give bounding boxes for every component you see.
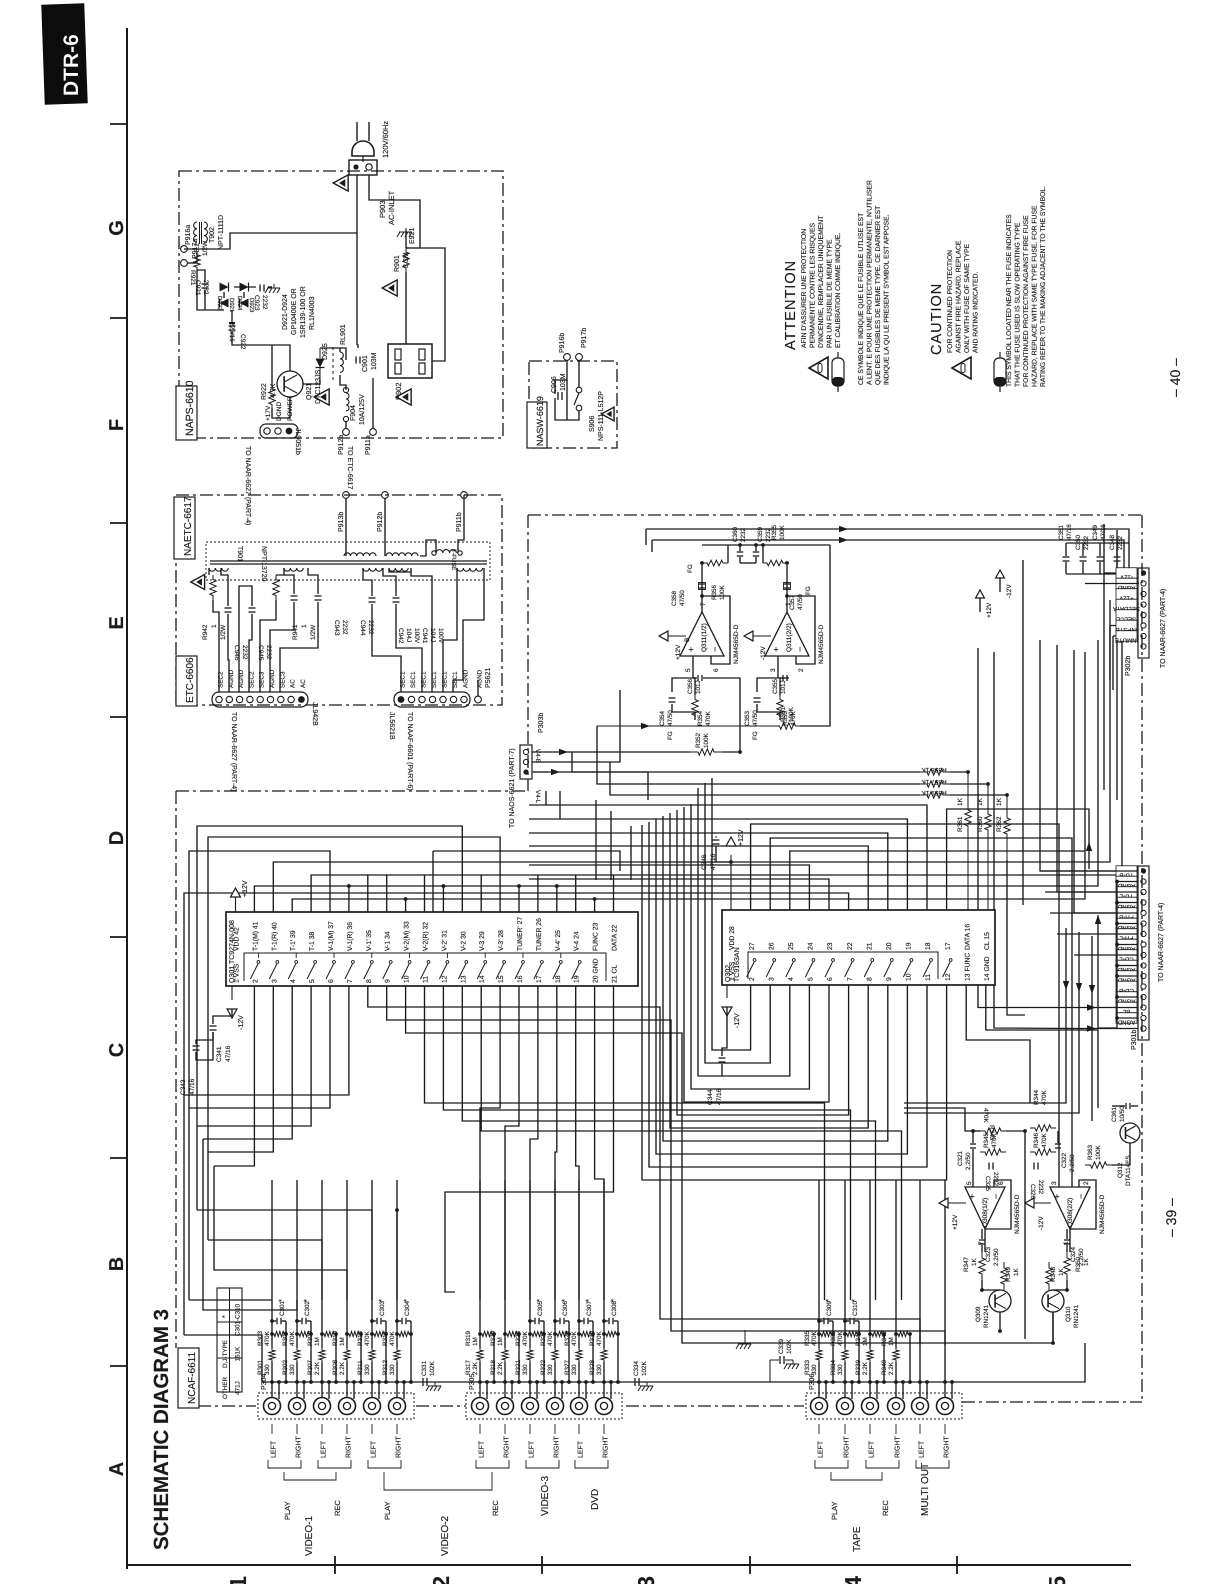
Q301 switch 12 [439,964,447,979]
wire [271,1362,273,1397]
svg-text:2: 2 [252,979,259,983]
capacitor C945 2232 [249,607,256,609]
svg-text:470K: 470K [705,710,712,726]
wire [458,495,464,553]
svg-text:D: D [106,831,128,845]
wire [188,262,198,264]
svg-text:3.3M: 3.3M [403,252,410,268]
wire [617,1334,619,1382]
transistor Q310 RN1241 [1042,1290,1064,1312]
wire mesh [197,826,462,1210]
JL5621B pin 4 SEC1 [429,696,435,702]
wire [909,1334,911,1382]
diode D925 [316,359,325,368]
main block border (bottom m1) [626,1405,804,1407]
wire [308,568,318,594]
svg-text:470K: 470K [837,1330,844,1346]
wire [346,1334,348,1348]
wire [919,1348,921,1362]
JL5621B pin 2 SEC1 [408,696,414,702]
T901 thermal fuse [436,550,456,553]
svg-text:330: 330 [289,1364,296,1375]
RCA jack 7 [472,1398,489,1415]
svg-text:T901: T901 [236,546,243,562]
JL942B pin 9 AC [298,696,305,703]
wire (jack shield) [825,1382,827,1399]
wire [272,397,290,418]
RCA jack 10 [547,1398,564,1415]
T901 secondary winding 2 [284,568,303,571]
wire [372,378,374,429]
svg-text:1K: 1K [996,797,1003,806]
svg-text:2232: 2232 [341,620,348,635]
svg-text:RL901: RL901 [340,324,347,345]
wire [883,1334,885,1382]
svg-text:8: 8 [866,977,873,981]
wire [346,1362,348,1397]
capacitor C350 2232 [1080,556,1087,558]
resistor R302 330 [294,1348,300,1362]
svg-text:10A/125V: 10A/125V [358,394,366,425]
page: bottom tick 3 [749,1556,751,1574]
svg-text:C943: C943 [333,620,340,636]
svg-text:P5621: P5621 [485,668,492,688]
svg-text:P903: P903 [378,200,387,218]
svg-text:D921-D924: D921-D924 [282,294,289,330]
resistor R342 1M [896,1331,910,1336]
wire [410,1334,412,1382]
svg-text:TUNER' 27: TUNER' 27 [517,917,524,951]
svg-text:R319: R319 [465,1330,472,1346]
wire [371,1362,373,1397]
svg-text:19: 19 [906,942,913,950]
warning triangle (ETC) [191,575,205,590]
resistor R356 100K [702,560,728,566]
svg-text:3: 3 [633,1576,659,1584]
wire [703,678,740,752]
svg-text:11: 11 [925,974,932,981]
RCA jack 1 [264,1398,281,1415]
Q302 switch 5 [805,962,813,977]
svg-text:100V: 100V [413,628,420,644]
wire [895,1362,897,1397]
svg-text:RIGHT: RIGHT [944,1436,951,1459]
svg-text:47/16: 47/16 [225,1045,232,1062]
page: grid tick 7 [110,1365,127,1367]
resistor R340 2.2K [893,1348,899,1362]
capacitor C358 47/50 FG [699,583,705,585]
svg-text:47/16: 47/16 [1100,524,1107,540]
wire (jack shield) [353,1382,355,1399]
svg-text:*: * [584,1299,593,1302]
svg-text:MULTI OUT: MULTI OUT [920,1463,931,1516]
power +12V (Q308) [939,1198,948,1208]
power -12V (Q311) [744,631,753,641]
Q302 switch 7 [845,962,853,977]
svg-text:*: * [222,1315,229,1318]
RCA jack 17 [912,1398,929,1415]
svg-text:VIDEO-1: VIDEO-1 [304,1516,315,1556]
capacitor C356 101J [697,675,699,681]
svg-text:R322: R322 [540,1359,547,1375]
svg-text:LEFT: LEFT [818,1440,825,1458]
svg-text:D925: D925 [322,343,329,360]
svg-text:SEC1: SEC1 [410,671,417,688]
svg-text:1: 1 [211,624,218,628]
svg-text:47/50: 47/50 [797,594,804,610]
svg-text:D924: D924 [236,296,243,311]
svg-text:15: 15 [498,975,505,983]
svg-text:DTA114ES: DTA114ES [1125,1155,1132,1186]
resistor R313 470K [372,1331,386,1336]
wire [1066,1229,1068,1239]
resistor R333 330 [816,1348,822,1362]
pin P912a [343,429,350,436]
svg-text:R309: R309 [307,1330,314,1346]
wire [453,568,484,692]
JL5621B pin 1 SEC1 [398,696,405,703]
svg-text:47/50: 47/50 [679,590,686,606]
capacitor C307 [583,1318,585,1325]
wire (SELDATA) [646,529,1139,605]
wire [578,1180,580,1334]
wire [532,690,620,762]
svg-text:R901: R901 [394,255,401,272]
svg-text:2232: 2232 [367,620,374,635]
svg-text:AGND: AGND [1117,1019,1135,1026]
wire (jack shield) [876,1382,878,1399]
switch S906 NPS-111-L512P [576,387,582,393]
resistor R343 470K [980,1128,1006,1134]
svg-text:JL942B: JL942B [311,702,318,726]
resistor R318 2.2K [502,1348,508,1362]
svg-text:P913b: P913b [337,512,345,532]
svg-text:−: − [991,1194,1001,1199]
block ETC-6606 label box [176,656,197,706]
svg-text:R941: R941 [292,624,299,640]
wire [981,1229,983,1239]
connector JL9051b [260,424,298,438]
T901 secondary winding 4 [389,568,408,571]
diode D923 [240,283,249,292]
T901 secondary winding 5 [457,568,483,571]
capacitor C301 [276,1318,278,1325]
svg-text:P911a: P911a [365,435,372,455]
wire [296,1334,298,1348]
wire [239,586,252,692]
connector P903 AC-INLET [349,160,377,175]
svg-text:V4-B: V4-B [534,749,541,763]
svg-text:1/2W: 1/2W [202,240,209,256]
svg-text:RIGHT: RIGHT [603,1436,610,1459]
wire [271,345,273,385]
pin P911a [370,429,377,436]
svg-text:8.2: 8.2 [194,243,201,252]
svg-text:1M: 1M [497,1337,504,1346]
svg-text:47/16: 47/16 [710,853,717,870]
wire [396,1362,398,1397]
svg-text:R351: R351 [780,706,787,722]
wire (jack shield) [328,1382,330,1399]
svg-text:LEFT: LEFT [371,1440,378,1458]
wire [285,1334,287,1382]
svg-text:B: B [106,1257,128,1271]
svg-text:P912b: P912b [376,512,384,532]
svg-text:21: 21 [866,942,873,950]
main block border (bottom m2) [416,1405,466,1407]
svg-text:470K: 470K [364,1330,371,1346]
resistor R348 1K [1046,1262,1052,1290]
capacitor C309 [823,1318,825,1325]
wire [271,1180,273,1334]
svg-text:330: 330 [547,1364,554,1375]
wire (jack shield) [403,1382,405,1399]
svg-text:104J: 104J [405,628,412,642]
svg-text:C346: C346 [701,854,708,870]
wire [1069,1229,1071,1252]
svg-text:C348: C348 [1109,534,1116,550]
wire [740,562,756,564]
svg-text:9: 9 [886,977,893,981]
capacitor C941 104J 100V [393,597,400,599]
wire [858,1334,860,1382]
Q301 switch 2 [250,964,258,979]
svg-text:DATA 16: DATA 16 [964,924,971,950]
svg-text:−: − [1076,1194,1086,1199]
svg-text:5: 5 [309,979,316,983]
svg-text:NAETC-6617: NAETC-6617 [183,496,194,556]
T901 secondary winding 3 [363,568,382,571]
svg-text:1M: 1M [888,1337,895,1346]
svg-text:−: − [795,647,805,652]
svg-text:LEFT: LEFT [529,1440,536,1458]
wire [1066,1280,1068,1290]
capacitor C306 [559,1318,561,1325]
svg-text:AND RATING INDICATED.: AND RATING INDICATED. [973,272,980,353]
svg-text:20: 20 [886,942,893,950]
notice CAUTION symbols [952,357,971,379]
main block border (left) [175,791,177,1348]
RCA jack 5 [364,1398,381,1415]
wire [1085,583,1139,585]
svg-text:R344: R344 [1033,1089,1040,1105]
svg-text:26: 26 [768,942,775,950]
wire [529,1180,531,1334]
svg-text:CAUTION: CAUTION [929,283,945,355]
svg-text:470K: 470K [547,1330,554,1346]
svg-text:Q311(2/2): Q311(2/2) [786,623,793,652]
svg-text:C354: C354 [659,710,666,726]
wire [410,568,412,572]
wire [895,1334,897,1348]
wire [249,614,252,692]
power +12V (Q311) [659,631,668,641]
svg-text:R310: R310 [332,1330,339,1346]
wire [310,1334,312,1382]
svg-text:T-1' 39: T-1' 39 [290,930,297,951]
wire [389,568,432,692]
svg-text:Q309: Q309 [975,1306,982,1322]
svg-text:FUNC 23: FUNC 23 [593,922,600,951]
Q302 switch 11 [923,962,931,977]
svg-text:47/16: 47/16 [189,1078,196,1095]
svg-text:470K: 470K [571,1330,578,1346]
wire [303,380,320,384]
svg-text:C922: C922 [239,334,246,350]
wire [270,602,294,692]
svg-text:RIGHT: RIGHT [296,1436,303,1459]
wire [844,1362,846,1397]
resistor R301 330 [269,1348,275,1362]
svg-text:R334: R334 [830,1359,837,1375]
pin P5621 AGND [475,696,482,703]
wire [371,1334,373,1348]
svg-text:+: + [967,1194,977,1199]
connector P301b [1138,866,1149,1040]
svg-text:2.2/50: 2.2/50 [965,1152,972,1170]
svg-text:22: 22 [847,942,854,950]
wire [221,568,228,606]
main block border (top-right) [528,514,1142,516]
resistor R327 330 [576,1348,582,1362]
wire (jack shield) [278,1382,280,1399]
svg-text:– 39 –: – 39 – [1163,1198,1179,1237]
svg-text:6: 6 [713,668,720,672]
wire [702,544,830,546]
resistor R349 1K [1001,1262,1007,1290]
wire [420,248,445,361]
svg-text:470K: 470K [991,1132,998,1148]
svg-text:+17V: +17V [265,405,272,421]
block NAETC-6617 border [176,495,502,705]
svg-text:1K: 1K [1058,1267,1065,1276]
resistor R303 470K [272,1331,286,1336]
resistor R942 1/2W [210,575,216,600]
resistor R362 1K [1004,795,1010,860]
svg-text:*: * [609,1299,618,1302]
pin P916a [181,246,188,253]
capacitor C944 2232 [315,595,322,597]
wire [529,1334,531,1348]
JL942B pin 8 AC [288,696,294,702]
svg-text:C321: C321 [957,1150,964,1166]
svg-text:47/16: 47/16 [716,1088,723,1105]
svg-text:T902: T902 [209,227,216,243]
wire [320,348,340,352]
svg-text:HAZARD, REPLACE WITH SAME TYPE: HAZARD, REPLACE WITH SAME TYPE FUSE. FOR… [1032,205,1039,387]
svg-text:VDD 28: VDD 28 [729,926,736,950]
svg-text:INDIQUE LA QU LE PRESENT SYMBO: INDIQUE LA QU LE PRESENT SYMBOL EST APPO… [884,214,891,385]
svg-text:1K: 1K [1013,1267,1020,1276]
connector P304 [258,1393,414,1419]
svg-text:7: 7 [700,602,707,606]
capacitor C339 102K [779,1356,781,1364]
JL942B pin 4 SEC2 [247,696,253,702]
wire [369,175,420,248]
transistor Q312 DTA114ES [1120,1123,1140,1143]
svg-text:R301: R301 [257,1359,264,1375]
resistor R355 100K [763,560,787,566]
svg-text:C341: C341 [216,1046,223,1062]
svg-text:P302b: P302b [1124,656,1132,676]
svg-text:C358: C358 [671,590,678,606]
svg-text:R335: R335 [804,1330,811,1346]
svg-text:PLAY: PLAY [383,1501,392,1520]
svg-text:QUE DES FUSIBLES DE MEME TYPE.: QUE DES FUSIBLES DE MEME TYPE. CE DARNIE… [875,206,882,385]
capacitor C310 [849,1318,851,1325]
Q301 switch 3 [269,964,277,979]
svg-text:NAPS-6610: NAPS-6610 [184,380,196,436]
wire arrow (BL) [1053,1007,1138,1009]
capacitor C341 47/16 [210,1025,217,1027]
svg-text:V-1' 35: V-1' 35 [366,930,373,951]
wire [321,1180,323,1334]
svg-text:*: * [277,1299,286,1302]
wire [208,568,210,575]
svg-text:VIDEO-2: VIDEO-2 [440,1516,451,1556]
resistor R334 330 [842,1348,848,1362]
svg-text:14 GND: 14 GND [984,956,991,981]
svg-text:ATTENTION: ATTENTION [783,260,799,350]
wire [757,704,780,720]
svg-text:R312: R312 [382,1359,389,1375]
resistor R323 470K [530,1331,544,1336]
fuse F904 10A/125V [346,393,349,411]
wire [271,1334,273,1348]
wire [231,310,233,323]
IC Q302 TC9163AN body [722,910,995,985]
svg-text:10: 10 [906,973,913,981]
svg-text:7: 7 [847,977,854,981]
svg-text:Q921: Q921 [306,383,313,400]
svg-text:R942: R942 [202,624,209,640]
JL942B pin 5 SEC3 [257,696,263,702]
svg-text:5: 5 [966,1181,973,1185]
resistor R310 1M [347,1331,361,1336]
svg-text:5: 5 [1044,1576,1070,1584]
svg-text:V4-L: V4-L [534,790,541,804]
pin P917a [181,260,188,267]
wire [999,1312,1001,1331]
wire [985,1180,1011,1229]
page: grid tick 6 [110,1157,127,1159]
wire [396,1180,398,1334]
svg-text:A: A [106,1462,128,1476]
JL5621B pin 6 SEC1 [450,696,456,702]
svg-text:8: 8 [366,979,373,983]
wire [360,1334,362,1382]
svg-text:D,J-TYPE: D,J-TYPE [222,1340,229,1368]
warning triangle (bottom right) [396,389,411,405]
wire [504,1362,506,1397]
svg-text:R304: R304 [282,1330,289,1346]
svg-text:C901: C901 [362,355,369,372]
svg-text:16: 16 [517,975,524,983]
svg-text:18: 18 [925,942,932,950]
svg-text:T-1(R) 40: T-1(R) 40 [271,922,278,951]
wire [504,1334,506,1348]
wire [944,1180,946,1334]
svg-text:C326: C326 [1029,1184,1036,1200]
wire [818,1334,820,1348]
svg-text:Q310: Q310 [1065,1306,1072,1322]
capacitor C334 102K [626,1381,633,1383]
svg-text:2: 2 [749,977,756,981]
svg-text:VDD 42: VDD 42 [234,927,241,951]
pin P913b [343,492,350,499]
wire [567,380,579,420]
svg-text:LEFT: LEFT [919,1440,926,1458]
